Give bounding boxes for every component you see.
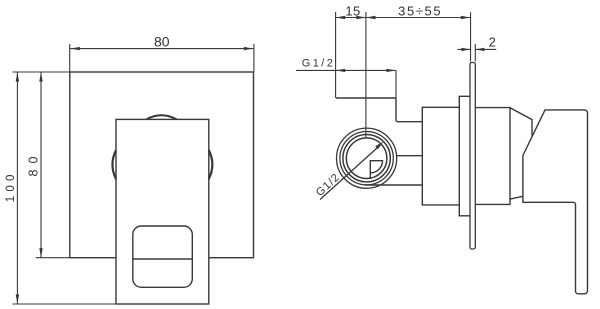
svg-text:35÷55: 35÷55	[398, 4, 442, 19]
dim 80 top arrow right	[244, 47, 254, 50]
svg-text:100: 100	[5, 170, 17, 202]
dim 100 arrow bottom	[16, 294, 19, 304]
dim 35÷55 arrow right	[461, 16, 471, 19]
G1/2 leader arrow right	[386, 69, 396, 72]
dim 80 left line	[40, 72, 42, 258]
svg-text:80: 80	[154, 34, 170, 50]
handle front inner mid line	[133, 258, 193, 260]
dim 35÷55 arrow left	[366, 16, 376, 19]
dim 80 top arrow left	[70, 47, 80, 50]
cartridge block	[422, 107, 459, 205]
centerline extension	[365, 12, 367, 137]
dim 100 arrow top	[16, 72, 19, 82]
handle side outline	[523, 110, 588, 294]
dim 80 top extension lines	[70, 44, 254, 72]
G1/2 top leader line	[296, 70, 396, 98]
neck top chamfer	[510, 108, 532, 136]
dim 80 left arrow bottom	[39, 248, 42, 258]
dim 15 arrow right	[356, 16, 366, 19]
svg-text:2: 2	[489, 35, 496, 50]
dim 15 and 35÷55 line	[336, 17, 471, 19]
collar	[475, 108, 510, 205]
dim 80 top line	[70, 48, 253, 50]
inlet circle inner	[346, 138, 387, 179]
body upper pipe line	[397, 155, 423, 157]
dim 2 arrow left	[461, 48, 470, 51]
dim 35÷55 extension right	[470, 12, 472, 61]
dim 100 extension top	[13, 71, 70, 73]
svg-text:80: 80	[27, 151, 41, 177]
dim 80 left extension bottom	[36, 257, 70, 259]
body top edge	[336, 97, 396, 99]
G1/2 diagonal arrow	[375, 141, 383, 149]
inlet circle outer	[337, 128, 397, 188]
dim 2 extension line	[474, 44, 476, 62]
wall flange	[459, 96, 470, 216]
front plate	[70, 72, 254, 258]
svg-text:15: 15	[345, 4, 360, 19]
G1/2 leader arrow left	[336, 69, 346, 72]
body lower pipe line	[365, 184, 422, 186]
dim 80 left arrow top	[39, 72, 42, 82]
escutcheon plate side	[470, 63, 475, 250]
dim 100 extension bottom	[13, 303, 117, 305]
dim 15 / 35÷55 extension left	[335, 12, 337, 98]
neck bottom edge	[510, 196, 523, 199]
handle front inner rounded rect	[133, 226, 193, 287]
thread flag	[370, 161, 382, 179]
inlet circle ring2	[340, 132, 393, 185]
dim 2 arrow right	[475, 48, 484, 51]
G1/2 diagonal leader	[320, 147, 379, 200]
svg-text:G1/2: G1/2	[314, 171, 343, 199]
dim 15 arrow left	[336, 16, 346, 19]
handle front left side arc	[112, 150, 116, 179]
dim 2 line	[458, 48, 497, 50]
handle front right side arc	[209, 150, 213, 179]
handle front body	[116, 119, 209, 304]
body step corner	[396, 98, 422, 122]
inlet circle ring3	[343, 135, 390, 182]
svg-text:G1/2: G1/2	[302, 58, 335, 70]
handle front top bump arc	[147, 115, 177, 119]
dim 100 line	[16, 72, 18, 304]
